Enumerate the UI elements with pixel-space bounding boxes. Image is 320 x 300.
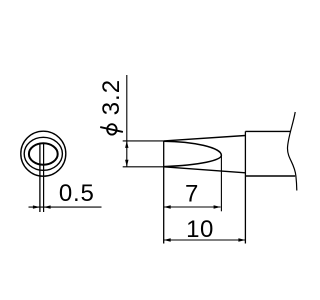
svg-text:10: 10	[186, 216, 214, 243]
extension line top (phi 3.2)	[123, 140, 164, 142]
shank top edge	[245, 130, 290, 132]
break line curve	[288, 112, 297, 191]
svg-text:7: 7	[185, 180, 198, 207]
dimension line 10	[164, 239, 246, 241]
extension line from flat vertex	[220, 156, 222, 212]
slot edge line left	[39, 143, 41, 212]
arrow up at top extension	[125, 141, 128, 148]
shank bottom edge	[245, 175, 295, 177]
svg-text:3.2: 3.2	[98, 79, 125, 115]
tip edge + extension line for 7/10 dims	[163, 141, 165, 244]
dimension line 0.5	[29, 206, 102, 208]
arrow right-pointing at left slot line	[33, 205, 40, 208]
arrow left-pointing at right slot line	[44, 205, 51, 208]
arrow left-pointing at tip ext	[164, 205, 171, 208]
front view outer circle (shank)	[21, 131, 66, 176]
phi symbol bowl	[107, 124, 116, 134]
arrow right-pointing at step ext (10)	[238, 238, 245, 241]
extension line bottom (phi 3.2)	[123, 166, 164, 168]
flat face boundary curve	[164, 141, 222, 166]
arrow down at bottom extension	[125, 160, 128, 167]
svg-text:0.5: 0.5	[59, 180, 95, 207]
front view inner ellipse	[24, 137, 62, 170]
dimension line 7	[164, 206, 221, 208]
slot edge line right	[43, 143, 45, 212]
dimension line phi 3.2 vertical	[126, 75, 128, 167]
arrow right-pointing at vertex ext	[214, 205, 221, 208]
arrow left-pointing at tip ext (10)	[164, 238, 171, 241]
step line + extension for 10 dim	[244, 131, 246, 243]
front view flat-face ellipse	[29, 143, 58, 164]
cone top edge	[164, 136, 246, 141]
cone bottom edge	[164, 167, 246, 173]
phi symbol slash	[100, 127, 123, 132]
